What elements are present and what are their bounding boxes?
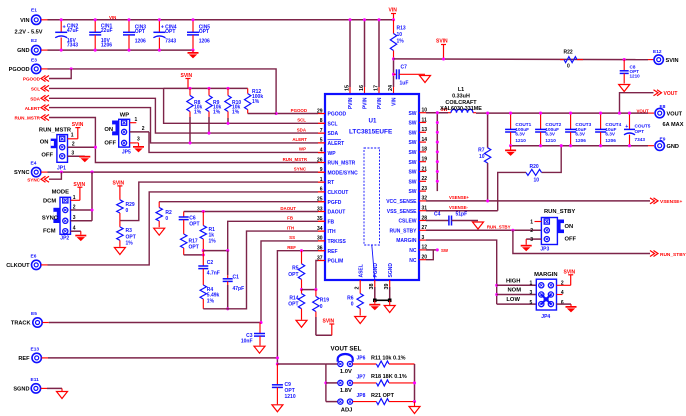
svg-text:E8: E8 [660,104,666,110]
ground C4 [473,222,484,229]
U1 right pin 12 NC [409,245,427,254]
net label VIN on rail [109,15,116,20]
resistor R5 [288,251,304,290]
net label DAOUT [280,206,296,211]
svg-text:21: 21 [422,166,428,172]
svg-text:OFF: OFF [104,141,116,147]
junction R17 railB [202,253,205,256]
svg-text:PGOOD: PGOOD [23,77,41,82]
svg-text:0: 0 [165,216,168,222]
ground PGND [369,300,380,310]
svg-text:1.8V: 1.8V [340,388,352,394]
capacitor C1 [223,251,244,309]
svg-text:37: 37 [317,255,323,261]
jumper JP3 [540,209,576,252]
junction CIN1 bottom [94,49,97,52]
wire JP3 pin3 [526,237,541,243]
U1 top pin 17 PVIN [373,85,383,109]
power flag SVIN R19 [316,319,335,336]
svg-text:47pF: 47pF [233,286,245,292]
U1 left pin 35 FB [317,216,335,225]
svg-text:OPT: OPT [189,244,199,250]
svg-text:RUN_MSTR: RUN_MSTR [328,161,356,167]
wire vset left rail [325,364,327,402]
svg-text:ITH: ITH [328,229,336,235]
svg-text:E1: E1 [31,8,37,14]
wire PGOOD arrow branch [49,69,71,79]
svg-text:DCM: DCM [43,199,56,205]
svg-text:R29: R29 [126,202,135,208]
svg-text:1.0V: 1.0V [340,369,352,375]
ground C7 [420,76,431,83]
svg-text:0: 0 [351,302,354,308]
svg-text:PGOOD: PGOOD [9,67,30,73]
terminal E2 GND [17,38,41,55]
inductor L1 [440,87,482,113]
svg-text:3: 3 [530,290,533,296]
svg-text:OPT: OPT [126,234,136,240]
svg-text:R7: R7 [478,148,485,154]
svg-text:SW: SW [408,111,416,117]
svg-text:19: 19 [422,157,428,163]
svg-text:1210: 1210 [630,74,641,79]
svg-text:SYNC: SYNC [14,170,30,176]
wire JP4 pin6 [557,304,572,306]
svg-text:51pF: 51pF [456,211,468,217]
wire PGFD [159,201,325,203]
U1 right pin 3 MARGIN [396,235,426,244]
svg-text:OPT: OPT [288,302,298,308]
svg-text:1: 1 [530,220,533,226]
resistor R22 [560,50,583,70]
svg-text:18: 18 [422,147,428,153]
junction rail R8 [188,87,191,90]
capacitor C4 [426,211,478,225]
junction CIN2 top [60,18,63,21]
svg-text:SGND: SGND [388,263,394,278]
svg-text:6.3V: 6.3V [515,132,526,137]
wire jp6 row [326,363,338,365]
resistor R13 [390,20,406,59]
capacitor C3 [241,323,265,346]
wire VIN rail [41,19,394,21]
svg-text:E13: E13 [31,347,40,353]
svg-text:10nF: 10nF [241,339,253,345]
junction COUT5 bot [628,144,631,147]
junction SW bus [436,121,439,124]
wire E11 [41,387,62,389]
U1 right pin 23 SW [408,186,427,195]
junction CIN3 bottom [127,49,130,52]
U1 left pin 37 PGLIM [317,255,343,264]
svg-text:16: 16 [359,85,365,91]
svg-text:7343: 7343 [165,38,176,44]
wire pullup rail [164,87,248,89]
svg-text:R13: R13 [397,26,406,32]
svg-text:1%: 1% [232,109,240,115]
junction MARGIN nom [495,293,498,296]
label ADJ [341,407,353,413]
svg-text:1: 1 [71,133,74,139]
svg-text:11: 11 [422,117,428,123]
terminal E1 VIN [15,8,43,36]
svg-text:R6: R6 [347,296,354,302]
jumper JP5 [104,113,131,156]
net label SDA at pin [297,127,307,132]
svg-text:OPT: OPT [199,29,209,35]
capacitor CIN3 [123,20,146,50]
wire jp7 row [326,382,338,384]
wire VIN filter node [393,59,395,94]
capacitor COUT5 [624,113,651,146]
pin numbers JP4 [530,281,564,306]
pin number JP1-2 [72,141,75,147]
svg-text:FB: FB [287,216,293,221]
junction SYNC JP2 [90,171,93,174]
svg-text:XAL6030-331ME: XAL6030-331ME [440,106,482,112]
svg-text:RUN_STBY: RUN_STBY [390,228,418,234]
svg-text:3: 3 [137,137,140,143]
wire JP3 pin1 stub [530,220,541,226]
junction SW bus [436,170,439,173]
junction JP1 pin2 [94,146,97,149]
capacitor C6 [179,212,200,235]
svg-text:SYNC: SYNC [42,215,59,221]
resistor R9 [206,88,222,133]
net label VOUT E8 [637,108,650,113]
U1 top pin 16 PVIN [359,85,369,109]
svg-text:2.2V - 5.5V: 2.2V - 5.5V [15,29,43,35]
svg-text:NC: NC [409,248,417,254]
ground C8 [619,85,630,92]
power flag SVIN JP1 [68,122,84,139]
svg-text:ASEL: ASEL [358,264,364,277]
svg-text:SW: SW [408,189,416,195]
svg-text:DAOUT: DAOUT [328,210,346,216]
junction CIN3 top [127,18,130,21]
net label SW L1 [441,107,449,112]
svg-text:VIN: VIN [389,8,398,14]
svg-text:0: 0 [567,64,570,70]
ground vset [409,402,420,414]
U1 left pin 25 PGFD [317,197,342,206]
wire SW bus [436,113,438,191]
svg-text:LOW: LOW [506,297,520,303]
svg-text:1206: 1206 [575,138,586,143]
svg-text:SW: SW [408,130,416,136]
U1 thermal pad [364,148,380,280]
junction PVIN15 [348,18,351,21]
U1 left pin 5 ALERT [318,138,344,147]
svg-text:WP: WP [299,147,306,152]
svg-text:WP: WP [120,113,129,119]
U1 right pin 22 SW [408,176,427,185]
svg-text:E9: E9 [660,136,666,142]
U1 left pin 34 ITH [317,226,336,235]
wire JP1 pin2 [68,146,96,148]
wire jp8 row [326,401,338,403]
ground R3 [114,248,125,255]
svg-text:L1: L1 [458,87,464,93]
junction VIN col [392,18,395,21]
wire REF row [42,357,278,359]
junction C3 [259,321,262,324]
U1 left pin 8 SCL [318,118,338,127]
junction SW bus [436,150,439,153]
net arrow SYNC [27,176,49,182]
terminal E6 CLKOUT [6,254,41,270]
U1 left pin 33 DAOUT [317,206,345,215]
svg-text:6.3V: 6.3V [575,132,586,137]
wire PVIN pin17 drop [378,20,380,94]
terminal E8 VOUT [648,104,684,128]
ground JP4 pin6 [566,306,577,312]
svg-text:1206: 1206 [135,38,146,44]
label HIGH [506,279,521,285]
junction C7 [392,73,395,76]
resistor R2 [156,202,172,228]
svg-text:R22: R22 [564,50,573,56]
svg-text:VIN: VIN [20,18,29,24]
wire REF ext [277,363,326,365]
svg-text:1%: 1% [209,238,217,244]
svg-text:22: 22 [422,176,428,182]
svg-text:33: 33 [317,206,323,212]
junction COUT3 top [569,112,572,115]
junction FB node [202,249,205,252]
net arrow VSENSE+ [650,198,682,205]
svg-text:1%: 1% [194,109,202,115]
svg-text:CSLEW: CSLEW [398,219,416,225]
svg-text:VSENSE-: VSENSE- [449,205,468,210]
wire JP5 pin3 stub [130,137,140,143]
label R11 line [371,356,406,362]
junction DAOUT R1 [202,210,205,213]
svg-text:E4: E4 [31,161,37,167]
label 1.8V [340,388,352,394]
wire RUN_STBY out [513,230,650,253]
jumper JP1 [39,128,72,172]
terminal E5 TRACK [11,311,42,327]
svg-text:1%: 1% [397,39,405,45]
wire DAOUT [184,211,325,213]
net arrow SDA [30,95,49,101]
svg-text:SGND: SGND [13,387,29,393]
svg-text:LTC3815EUFE: LTC3815EUFE [349,129,393,136]
ground R6 [355,317,366,324]
U1 right pin 28 CSLEW [398,215,427,224]
ground C3 [254,346,265,353]
svg-text:4: 4 [320,148,323,154]
resistor R17 [181,234,199,255]
junction C8 [623,58,626,61]
svg-text:SVIN: SVIN [436,39,448,45]
wire SYNC row [41,171,325,173]
svg-text:E6: E6 [31,254,37,260]
junction R5 bottom [300,288,303,291]
svg-text:14: 14 [422,137,428,143]
wire VSENSE- [426,210,498,212]
wire PGLIM node [302,289,316,291]
svg-text:R18 18K 0.1%: R18 18K 0.1% [371,374,407,380]
svg-text:23: 23 [422,186,428,192]
junction PGOOD R12 [275,112,278,115]
net label FB [287,216,293,221]
svg-text:10: 10 [534,177,540,183]
label NOM [508,288,522,294]
power flag SVIN pullups [181,73,193,88]
ground JP2 pin4 [75,235,86,241]
junction SYNC arrow [60,171,63,174]
svg-text:22uF: 22uF [101,28,113,34]
svg-text:WP: WP [328,151,337,157]
net label REF [287,245,296,250]
svg-text:E2: E2 [31,38,37,44]
wire FB [203,221,325,250]
net label PGOOD at pin [291,108,307,113]
capacitor COUT1 [505,113,532,146]
svg-text:26: 26 [317,157,323,163]
terminal E11 SGND [13,377,40,393]
junction CIN4 top [158,18,161,21]
U1 right pin 21 SW [408,166,427,175]
svg-text:2: 2 [72,141,75,147]
svg-text:VSENSE+: VSENSE+ [660,199,682,205]
svg-text:DAOUT: DAOUT [280,206,296,211]
U1 right pin 27 RUN_STBY [390,225,428,234]
junction C1 bottom [226,307,229,310]
net label WP at pin [299,147,306,152]
svg-text:+: + [63,25,66,31]
svg-text:JP6: JP6 [357,356,366,362]
wire MARGIN low row [497,303,537,305]
power flag SVIN JP2 [71,182,86,201]
wire SYNC arrow branch [49,172,61,179]
U1 right pin 20 NC [409,255,427,264]
U1 top pin 24 VIN [388,85,398,106]
wire SYNC drop [91,172,93,221]
wire JP2 pin2 [71,204,93,210]
net label ITH [287,225,294,230]
svg-text:VOUT: VOUT [664,91,678,97]
junction CIN2 bottom [60,49,63,52]
junction SVIN tee [392,57,395,60]
U1 right pin 13 SW [408,127,427,136]
wire GND rail [41,49,193,51]
junction SW bus [436,141,439,144]
svg-text:1206: 1206 [199,38,210,44]
svg-text:1%: 1% [252,99,260,105]
svg-text:R5: R5 [292,265,299,271]
junction REF vert row [276,356,279,359]
svg-text:1210: 1210 [515,138,526,143]
wire JP5 pin2 WP [130,126,325,153]
svg-text:6.3V: 6.3V [605,132,616,137]
capacitor C7 [394,65,426,87]
svg-text:OPT: OPT [635,129,645,134]
svg-text:2: 2 [561,281,564,287]
svg-text:E11: E11 [31,377,40,383]
svg-text:E3: E3 [31,58,37,64]
junction rail R9 [207,87,210,90]
svg-text:E5: E5 [31,311,37,317]
svg-text:VIN: VIN [109,15,116,20]
U1 part number [349,129,393,136]
svg-text:VCC_SENSE: VCC_SENSE [386,199,417,205]
svg-text:1: 1 [135,117,138,123]
svg-text:GND: GND [17,48,29,54]
svg-text:36: 36 [317,246,323,252]
wire ITH [203,231,325,309]
svg-text:RUN_STBY: RUN_STBY [544,209,575,215]
svg-text:0: 0 [320,304,323,310]
svg-text:ON: ON [565,224,574,230]
resistor R1 [200,212,216,251]
junction CIN4 bottom [158,49,161,52]
ground C9 [272,405,283,412]
svg-text:C4: C4 [434,211,441,217]
resistor R18 [353,380,415,386]
wire JP2 pin3 [71,215,93,221]
svg-text:ITH: ITH [287,225,294,230]
resistor R14 [288,290,304,320]
svg-text:PVIN: PVIN [348,97,354,109]
svg-text:HIGH: HIGH [506,279,521,285]
svg-text:R20: R20 [530,164,539,170]
label MARGIN title SVIN [557,270,576,286]
ground R2 [154,228,165,235]
svg-text:OPT: OPT [288,272,298,278]
svg-text:25: 25 [317,197,323,203]
junction R19 top [314,288,317,291]
svg-text:SW: SW [408,150,416,156]
svg-text:SW: SW [408,140,416,146]
svg-text:4.7nF: 4.7nF [207,270,220,276]
U1 right pin 14 SW [408,137,427,146]
wire MARGIN [426,240,497,304]
capacitor C9 [272,364,296,404]
svg-text:C1: C1 [233,274,240,280]
U1 right pin 31 VSS_SENSE [387,206,428,215]
power flag SVIN top [436,39,448,59]
svg-text:0: 0 [126,208,129,214]
junction COUT4 top [599,112,602,115]
svg-text:29: 29 [317,108,323,114]
svg-text:7343: 7343 [67,42,78,48]
svg-text:SCL: SCL [328,121,338,127]
wire VOUT gnd rail [511,145,648,147]
junction R7 rail [486,112,489,115]
svg-text:4: 4 [561,290,564,296]
ground below CIN5 [188,49,199,59]
wire MARGIN high row [497,284,537,286]
terminal E9 GND [648,136,679,150]
svg-text:SDA: SDA [30,97,40,102]
wire SCL [49,88,325,123]
wire TRKSS [261,241,325,323]
junction R9 SDA [207,132,210,135]
wire PVIN pin16 drop [364,20,366,94]
wire SGND drop [389,287,391,300]
svg-text:SS: SS [289,235,295,240]
svg-text:PGLIM: PGLIM [328,259,344,265]
svg-text:13: 13 [422,127,428,133]
U1 left pin 1 RT [318,177,334,186]
U1 left pin 36 REF [317,246,338,255]
svg-text:PGOOD: PGOOD [291,108,307,113]
wire R17 to railB [184,254,204,256]
svg-text:3: 3 [422,235,425,241]
